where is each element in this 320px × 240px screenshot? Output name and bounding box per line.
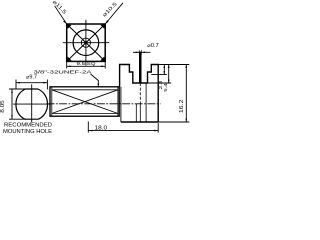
body internal vertical line left	[135, 104, 137, 122]
threaded barrel outline	[50, 87, 119, 116]
flange inner circle	[81, 38, 90, 47]
svg-text:⌀0.7: ⌀0.7	[147, 43, 159, 49]
top extension line right side	[158, 64, 189, 66]
dimension 8.05 extension lines	[9, 89, 26, 119]
dimension 9.5 SQ extension lines	[67, 62, 106, 69]
ledge extension line	[151, 74, 167, 76]
flange square outline	[67, 24, 106, 61]
horizontal centerline of side view	[47, 103, 161, 105]
pin dimension line dia 0.7	[133, 52, 151, 54]
flange diagonal lines	[67, 24, 106, 61]
thread callout leader	[91, 74, 100, 87]
mounting hole horizontal centerline	[13, 103, 51, 105]
slot bottom extension line	[148, 82, 171, 84]
dimension dia 9.7 extension lines	[16, 80, 47, 90]
svg-text:RECOMMENDED: RECOMMENDED	[4, 123, 52, 129]
connector head stepped profile	[120, 65, 159, 123]
thread cross diagonal B	[52, 90, 118, 114]
contact pin	[139, 52, 142, 84]
dimension line 9.5 SQ	[67, 66, 106, 68]
dimension 18.0 extension lines	[88, 122, 158, 133]
bottom extension line right side	[158, 121, 189, 123]
barrel inner edge lines	[52, 87, 118, 116]
center contact dot	[84, 41, 87, 44]
dimension line 5.4	[168, 65, 170, 84]
svg-text:18.0: 18.0	[95, 126, 108, 132]
pin dimension dia 0.7 extension ticks	[139, 50, 141, 55]
dimension line dia 9.7	[16, 82, 47, 84]
pin centerline dashed	[139, 83, 141, 104]
vertical centerline of flange	[85, 20, 87, 66]
body left edge	[120, 87, 122, 122]
dimension line 18.0	[88, 130, 158, 132]
horizontal centerline of flange	[63, 42, 109, 44]
svg-text:3/8"-32UNEF-2A: 3/8"-32UNEF-2A	[34, 70, 93, 76]
body internal vertical line right	[145, 83, 147, 122]
svg-text:8.05: 8.05	[0, 100, 6, 113]
dimension line 8.05	[11, 89, 13, 119]
leader line dia 10.5	[105, 3, 123, 24]
thread cross diagonal A	[52, 90, 118, 114]
leader line dia 11.5	[55, 6, 67, 24]
mounting hole circle with flats	[16, 89, 47, 119]
mounting hole vertical centerline	[31, 84, 33, 122]
center conductor line solid	[139, 104, 141, 122]
svg-text:5.4: 5.4	[163, 83, 168, 92]
corner chamfer marks	[67, 24, 106, 61]
body bottom edge	[121, 121, 158, 123]
svg-text:⌀9.7: ⌀9.7	[26, 75, 37, 81]
svg-text:9.5 SQ: 9.5 SQ	[77, 61, 96, 66]
dimension line 2.8	[164, 65, 166, 75]
flange outer circle	[73, 30, 99, 56]
dimension line 16.2	[186, 65, 188, 123]
svg-text:16.2: 16.2	[179, 99, 185, 113]
svg-text:MOUNTING HOLE: MOUNTING HOLE	[3, 129, 52, 135]
